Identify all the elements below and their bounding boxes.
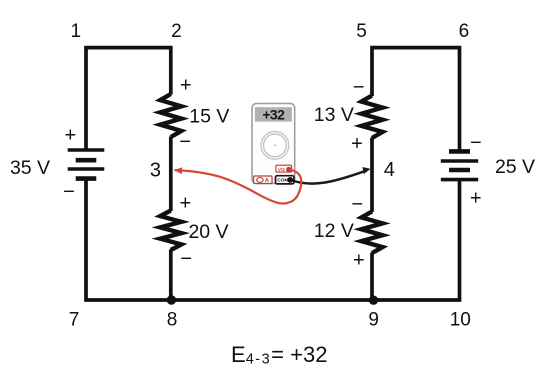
svg-text:3: 3 xyxy=(150,159,161,181)
svg-text:4: 4 xyxy=(384,159,395,181)
battery 35 V (left, + top) xyxy=(68,150,105,179)
svg-text:COM: COM xyxy=(277,178,288,183)
svg-text:1: 1 xyxy=(71,21,82,42)
svg-text:10: 10 xyxy=(450,310,471,331)
svg-text:−: − xyxy=(353,77,365,99)
svg-text:VΩ: VΩ xyxy=(278,167,285,172)
svg-text:7: 7 xyxy=(69,310,80,331)
svg-text:+32: +32 xyxy=(262,107,285,123)
svg-text:5: 5 xyxy=(356,21,367,42)
multimeter V-ohm jack xyxy=(276,165,292,172)
wire node 3 segment between R 15V and R 20V xyxy=(169,137,173,212)
svg-text:6: 6 xyxy=(459,21,470,42)
svg-text:+: + xyxy=(179,192,191,214)
svg-text:+: + xyxy=(180,74,192,96)
resistor 12 V xyxy=(361,212,382,254)
svg-text:−: − xyxy=(180,248,192,270)
svg-text:−: − xyxy=(63,181,75,203)
junction node 8 xyxy=(167,295,176,304)
svg-text:12 V: 12 V xyxy=(314,220,354,242)
wire top-right loop (node5-node6) xyxy=(372,48,460,152)
svg-text:20 V: 20 V xyxy=(188,221,228,243)
junction node 9 xyxy=(369,296,378,305)
wire bottom rail nodes 7-8-9-10 with left and right risers xyxy=(86,178,460,300)
battery 25 V (right, - top) xyxy=(441,151,478,179)
resistor 20 V xyxy=(160,211,181,251)
wire from R 20V to node 8 xyxy=(169,250,173,301)
multimeter dial xyxy=(261,132,289,160)
resistor 13 V xyxy=(361,96,382,139)
resistor 15 V xyxy=(160,94,181,137)
svg-text:−: − xyxy=(179,131,191,153)
multimeter display +32 xyxy=(255,107,292,121)
multimeter body xyxy=(252,104,295,184)
svg-text:+: + xyxy=(353,249,365,271)
svg-text:13 V: 13 V xyxy=(314,104,354,126)
svg-text:15 V: 15 V xyxy=(189,105,229,127)
wire from R 12V to node 9 xyxy=(370,253,374,301)
svg-text:+: + xyxy=(351,133,363,155)
svg-text:35 V: 35 V xyxy=(10,157,50,179)
svg-text:8: 8 xyxy=(167,310,178,331)
wire node 4 segment between R 13V and R 12V xyxy=(370,138,374,213)
svg-text:+: + xyxy=(470,188,482,210)
svg-text:−: − xyxy=(351,193,363,215)
svg-text:A: A xyxy=(265,178,269,184)
svg-text:25 V: 25 V xyxy=(495,156,535,178)
multimeter COM jack xyxy=(276,176,294,184)
red test lead from V-ohm jack to node 3 xyxy=(175,169,302,203)
black test lead from COM to node 4 xyxy=(291,171,365,183)
multimeter A jack xyxy=(254,176,272,184)
svg-text:9: 9 xyxy=(368,310,379,331)
svg-text:2: 2 xyxy=(171,21,182,42)
wire top-left loop (node1-node2) xyxy=(86,48,171,151)
svg-text:E4-3= +32: E4-3= +32 xyxy=(231,342,327,368)
svg-text:−: − xyxy=(470,132,482,154)
svg-text:+: + xyxy=(64,124,76,146)
